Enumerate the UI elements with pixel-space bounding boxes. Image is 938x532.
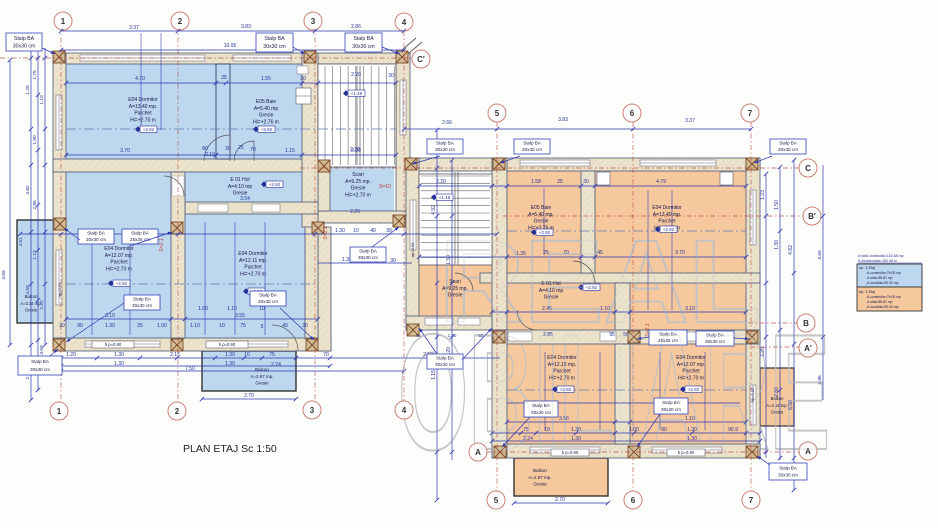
svg-text:1.30: 1.30 — [105, 323, 115, 329]
svg-text:Gresie: Gresie — [255, 381, 269, 386]
svg-text:3.55: 3.55 — [235, 313, 245, 319]
svg-text:10: 10 — [353, 228, 359, 234]
svg-text:h p=0.90: h p=0.90 — [219, 342, 236, 347]
svg-text:30: 30 — [302, 323, 308, 329]
svg-text:E05 Baie: E05 Baie — [531, 205, 552, 211]
svg-text:Stalp BA: Stalp BA — [133, 297, 152, 302]
svg-text:70: 70 — [323, 352, 329, 358]
svg-text:Stalp BA: Stalp BA — [259, 293, 278, 298]
svg-text:30: 30 — [390, 258, 396, 264]
svg-text:Stalp BA: Stalp BA — [779, 141, 798, 146]
svg-text:10: 10 — [244, 352, 250, 358]
svg-text:1.30: 1.30 — [225, 352, 235, 358]
svg-text:A=2.97 mp.: A=2.97 mp. — [250, 374, 273, 379]
svg-text:PLAN ETAJ Sc 1:50: PLAN ETAJ Sc 1:50 — [183, 443, 277, 455]
svg-text:A desfasurata=152.08 m: A desfasurata=152.08 m — [858, 259, 897, 263]
svg-text:trp=0.90: trp=0.90 — [410, 242, 415, 258]
svg-text:Stalp BA: Stalp BA — [436, 141, 455, 146]
svg-text:E04 Dormitor: E04 Dormitor — [104, 246, 134, 252]
svg-text:1.30: 1.30 — [114, 361, 124, 367]
svg-text:90: 90 — [77, 323, 83, 329]
svg-text:1.10: 1.10 — [227, 306, 237, 312]
svg-text:Hi=+2.70 m: Hi=+2.70 m — [130, 117, 156, 123]
svg-text:trp=0.90: trp=0.90 — [57, 282, 62, 298]
svg-text:30: 30 — [300, 76, 306, 82]
svg-text:1.30: 1.30 — [114, 352, 124, 358]
svg-text:4: 4 — [402, 18, 407, 27]
svg-text:4.82: 4.82 — [25, 185, 31, 195]
svg-text:1.15: 1.15 — [285, 148, 295, 154]
svg-text:10: 10 — [259, 306, 265, 312]
svg-text:10: 10 — [219, 323, 225, 329]
svg-text:1.58: 1.58 — [531, 179, 541, 185]
svg-text:1.20: 1.20 — [66, 352, 76, 358]
svg-text:30x30 cm: 30x30 cm — [86, 237, 106, 242]
svg-text:1.30: 1.30 — [335, 228, 345, 234]
svg-text:5: 5 — [261, 324, 264, 330]
svg-text:Hi=+2.70 m: Hi=+2.70 m — [106, 266, 132, 272]
svg-text:+2.92: +2.92 — [261, 127, 273, 132]
svg-text:7: 7 — [748, 109, 753, 118]
svg-text:E 01 Hol: E 01 Hol — [230, 177, 249, 183]
svg-text:B': B' — [808, 212, 816, 221]
svg-text:OBILIARE: OBILIARE — [398, 300, 830, 484]
svg-text:25: 25 — [137, 323, 143, 329]
svg-text:Balcon: Balcon — [255, 367, 269, 372]
svg-text:Stalp BA: Stalp BA — [14, 36, 35, 42]
svg-text:A=12.11 mp.: A=12.11 mp. — [239, 258, 267, 264]
svg-text:Hi=+2.76 m: Hi=+2.76 m — [253, 119, 279, 125]
svg-text:1: 1 — [57, 407, 62, 416]
svg-text:2.66: 2.66 — [442, 120, 452, 126]
svg-text:Scari: Scari — [352, 172, 363, 178]
svg-text:30x30 cm: 30x30 cm — [132, 303, 152, 308]
svg-text:E05 Baie: E05 Baie — [256, 99, 277, 105]
svg-text:Stalp BA: Stalp BA — [353, 36, 374, 42]
svg-text:A=13.40 mp.: A=13.40 mp. — [129, 104, 158, 110]
svg-text:30x30 cm: 30x30 cm — [352, 44, 375, 50]
svg-text:25x25 cm: 25x25 cm — [130, 237, 150, 242]
svg-text:Stalp BA: Stalp BA — [87, 231, 106, 236]
svg-text:6: 6 — [631, 496, 636, 505]
svg-text:30: 30 — [583, 179, 589, 185]
svg-text:2.10: 2.10 — [205, 152, 215, 158]
svg-text:3.37: 3.37 — [685, 118, 695, 124]
svg-text:1.10: 1.10 — [190, 323, 200, 329]
svg-text:3.54: 3.54 — [240, 196, 250, 202]
svg-text:3.69: 3.69 — [817, 250, 823, 260]
svg-text:40: 40 — [282, 323, 288, 329]
svg-text:2.20: 2.20 — [351, 72, 361, 78]
svg-text:Gresie: Gresie — [259, 113, 274, 119]
svg-text:5: 5 — [494, 496, 499, 505]
svg-text:Stalp BA: Stalp BA — [131, 231, 150, 236]
svg-text:6: 6 — [630, 109, 635, 118]
svg-text:-A locuibila=50.50 mp: -A locuibila=50.50 mp — [866, 281, 899, 285]
svg-text:1.10: 1.10 — [39, 95, 45, 105]
svg-text:-A locuibila=50.50 mp: -A locuibila=50.50 mp — [866, 305, 899, 309]
svg-text:1.75: 1.75 — [32, 70, 38, 80]
svg-text:3.69: 3.69 — [39, 345, 45, 355]
svg-text:-A construita=76.00 mp: -A construita=76.00 mp — [866, 271, 901, 275]
svg-text:30x30 cm: 30x30 cm — [778, 147, 798, 152]
svg-text:Balcon: Balcon — [25, 294, 38, 299]
svg-text:S=2.1: S=2.1 — [323, 226, 329, 239]
svg-text:+2.92: +2.92 — [143, 127, 155, 132]
svg-text:A total construita=152.88 mp: A total construita=152.88 mp — [858, 254, 904, 258]
svg-text:1.00: 1.00 — [157, 323, 167, 329]
svg-text:25: 25 — [238, 145, 244, 151]
svg-text:20: 20 — [225, 146, 231, 152]
svg-text:2.20: 2.20 — [351, 148, 361, 154]
svg-text:A=9.25 mp.: A=9.25 mp. — [345, 179, 371, 185]
svg-text:30x30 cm: 30x30 cm — [13, 43, 36, 49]
svg-text:70: 70 — [250, 147, 256, 153]
svg-text:Ap. 1-Etaj: Ap. 1-Etaj — [859, 266, 875, 270]
svg-text:Parchet: Parchet — [244, 265, 262, 271]
svg-text:S=2.1: S=2.1 — [159, 238, 165, 251]
svg-text:30: 30 — [59, 323, 65, 329]
svg-text:30x30 cm: 30x30 cm — [258, 299, 278, 304]
svg-text:Stalp BA: Stalp BA — [264, 36, 285, 42]
svg-text:+2.92: +2.92 — [269, 182, 281, 187]
svg-text:A=12.07 mp.: A=12.07 mp. — [105, 253, 134, 259]
svg-text:C': C' — [417, 55, 425, 64]
svg-text:Stalp BA: Stalp BA — [359, 249, 378, 254]
svg-text:30x30 cm: 30x30 cm — [358, 255, 378, 260]
svg-text:1.30: 1.30 — [774, 240, 780, 250]
svg-text:30x30 cm: 30x30 cm — [522, 147, 542, 152]
svg-text:Gresie: Gresie — [25, 308, 38, 313]
svg-text:+2.92: +2.92 — [116, 281, 128, 286]
svg-text:A=4.10 mp: A=4.10 mp — [228, 184, 253, 190]
svg-text:1.50: 1.50 — [774, 200, 780, 210]
svg-text:1.25: 1.25 — [25, 85, 31, 95]
svg-text:-A utila=55.81 mp: -A utila=55.81 mp — [866, 276, 893, 280]
svg-text:1.30: 1.30 — [225, 361, 235, 367]
svg-text:E04 Dormitor: E04 Dormitor — [128, 97, 158, 103]
svg-text:30x30 cm: 30x30 cm — [263, 44, 286, 50]
svg-text:30x30 cm: 30x30 cm — [30, 367, 50, 372]
svg-text:4.82: 4.82 — [788, 245, 794, 255]
svg-text:+1.48: +1.48 — [439, 195, 451, 200]
svg-text:2.86: 2.86 — [351, 24, 361, 30]
svg-text:Gresie: Gresie — [233, 191, 248, 197]
svg-text:Stalp BA: Stalp BA — [31, 359, 50, 364]
svg-text:C: C — [805, 164, 811, 173]
svg-text:2.70: 2.70 — [555, 497, 565, 503]
svg-text:7: 7 — [749, 496, 754, 505]
svg-text:10.05: 10.05 — [224, 43, 237, 49]
svg-text:3.70: 3.70 — [120, 148, 130, 154]
svg-text:3.10: 3.10 — [105, 313, 115, 319]
svg-text:4.70: 4.70 — [135, 76, 145, 82]
svg-text:E04 Dormitor: E04 Dormitor — [652, 205, 682, 211]
svg-text:4.79: 4.79 — [656, 179, 666, 185]
svg-text:1.00: 1.00 — [198, 306, 208, 312]
svg-text:E04 Dormitor: E04 Dormitor — [238, 251, 268, 257]
svg-text:2.20: 2.20 — [350, 209, 360, 215]
svg-text:2.15: 2.15 — [170, 352, 180, 358]
svg-text:2: 2 — [178, 17, 183, 26]
svg-text:Ap. 2-Etaj: Ap. 2-Etaj — [859, 290, 875, 294]
svg-text:2.70: 2.70 — [244, 393, 254, 399]
svg-text:30: 30 — [388, 73, 394, 79]
svg-text:h p=0.90: h p=0.90 — [105, 342, 122, 347]
svg-text:1: 1 — [61, 17, 66, 26]
svg-text:7.50: 7.50 — [185, 366, 195, 372]
svg-text:3: 3 — [310, 406, 315, 415]
svg-text:-A construita=76.00 mp: -A construita=76.00 mp — [866, 295, 901, 299]
svg-text:3.37: 3.37 — [129, 25, 139, 31]
svg-text:30x30 cm: 30x30 cm — [435, 147, 455, 152]
svg-text:Stalp BA: Stalp BA — [523, 141, 542, 146]
svg-text:1.10: 1.10 — [32, 250, 38, 260]
svg-text:3.83: 3.83 — [558, 117, 568, 123]
svg-text:2: 2 — [175, 407, 180, 416]
svg-text:Parchet: Parchet — [110, 260, 128, 266]
svg-text:3: 3 — [311, 17, 316, 26]
svg-text:Hi=+2.70 m: Hi=+2.70 m — [240, 271, 266, 277]
svg-text:4.51: 4.51 — [18, 237, 24, 247]
svg-text:1.23: 1.23 — [760, 190, 766, 200]
svg-text:4.92: 4.92 — [431, 205, 437, 215]
svg-text:5: 5 — [495, 109, 500, 118]
svg-text:25: 25 — [557, 179, 563, 185]
svg-text:2.86: 2.86 — [32, 200, 38, 210]
svg-text:3.69: 3.69 — [1, 270, 7, 280]
svg-text:Gresie: Gresie — [351, 186, 366, 192]
svg-text:Hi=+2.70 m: Hi=+2.70 m — [345, 192, 371, 198]
svg-text:75: 75 — [240, 323, 246, 329]
svg-text:3.83: 3.83 — [241, 24, 251, 30]
svg-text:-A utila=55.81 mp: -A utila=55.81 mp — [866, 300, 893, 304]
svg-text:25: 25 — [221, 75, 227, 81]
svg-text:40: 40 — [370, 228, 376, 234]
svg-text:1.55: 1.55 — [261, 76, 271, 82]
svg-text:2.20: 2.20 — [436, 179, 446, 185]
svg-text:75: 75 — [269, 352, 275, 358]
svg-text:A=3.14 mp.: A=3.14 mp. — [20, 301, 42, 306]
svg-text:S=10: S=10 — [379, 184, 391, 190]
svg-text:Parchet: Parchet — [134, 111, 152, 117]
svg-text:A=5.40 mp: A=5.40 mp — [254, 106, 279, 112]
svg-text:+1.48: +1.48 — [351, 91, 363, 96]
svg-text:2.24: 2.24 — [271, 362, 281, 368]
svg-text:1.90: 1.90 — [32, 135, 38, 145]
